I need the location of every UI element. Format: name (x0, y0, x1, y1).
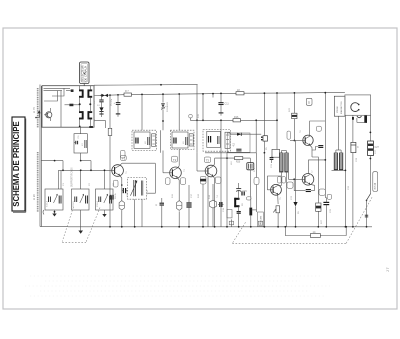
svg-text:C11: C11 (225, 103, 230, 106)
emitter network T1 (121, 178, 123, 201)
bus label box 5 (258, 221, 262, 225)
resistor on x110 (108, 128, 112, 135)
emitter resistor T4 (316, 203, 321, 211)
wire verticals to tuned row (60, 170, 62, 189)
IF transformer dashed (128, 178, 147, 200)
diode to ground (295, 141, 297, 203)
second rail y120 (190, 119, 277, 121)
svg-text:R16: R16 (234, 116, 239, 119)
node dots (79, 103, 81, 105)
component value labels (63, 98, 377, 224)
DIN pin dark (352, 115, 354, 117)
DIN socket box (345, 95, 371, 115)
transistor T2 (170, 166, 182, 180)
label box C (317, 126, 322, 131)
frame bottom (40, 226, 68, 228)
show-through ghost texture (25, 276, 330, 296)
long wires down from socket (344, 115, 346, 227)
svg-text:T3: T3 (206, 158, 210, 162)
wire connector down (263, 153, 265, 227)
left frame tick text column (37, 88, 39, 128)
wire nest top-left of tuner (44, 87, 71, 89)
svg-text:SUPPORT RCA 90: SUPPORT RCA 90 (71, 167, 74, 187)
dark bar (364, 116, 367, 123)
wire y152.8 (205, 152, 256, 154)
emitter resistor T2 euro (177, 201, 182, 211)
box corner right of tuner (94, 121, 106, 128)
svg-text:C3 L6: C3 L6 (97, 200, 99, 207)
IF filter F3 dashed (203, 129, 230, 151)
svg-text:PU: PU (266, 147, 268, 150)
varicap (162, 94, 164, 102)
transformer secondary down (134, 199, 136, 227)
svg-text:C27: C27 (375, 146, 380, 149)
coil L1b bracket (88, 90, 93, 98)
label CV box (306, 98, 312, 105)
svg-text:MAGNETOS.: MAGNETOS. (340, 101, 343, 114)
coil L3 (85, 140, 86, 148)
label boxes left of T2 coil (113, 180, 118, 187)
connector plug (261, 136, 268, 141)
left frame vertical rule (39, 85, 41, 227)
svg-text:T2 FI: T2 FI (147, 190, 149, 195)
video diode (230, 133, 237, 135)
ground under B1 (54, 210, 56, 214)
coil L2a bracket (79, 111, 84, 119)
svg-text:SCHEMA DE PRINCIPE: SCHEMA DE PRINCIPE (12, 121, 21, 207)
svg-text:FD: FD (242, 203, 244, 206)
resistor R22 (292, 113, 297, 118)
antenna input arrow (35, 110, 41, 118)
HAUT PARLEUR label (373, 172, 378, 192)
resistor R2 dark (71, 89, 74, 92)
coil top stubs (79, 86, 81, 90)
cap C24 (323, 202, 329, 204)
svg-text:D3 BB105: D3 BB105 (167, 101, 169, 112)
T4 collector up (309, 160, 326, 174)
ceramic discriminator thick bracket (234, 198, 239, 207)
resistors beside T3 (200, 176, 206, 184)
IF filter F2 dashed (170, 130, 194, 149)
node (109, 94, 111, 96)
PRISE MAGNETOSCOPE box (334, 96, 345, 116)
resistor R7 (124, 93, 132, 96)
IF transformer hatched A (280, 153, 289, 172)
capacitor C15 (236, 189, 241, 192)
label box small (247, 197, 252, 200)
resistor R4 dark (69, 104, 73, 107)
speaker switch (366, 200, 368, 202)
svg-text:T2: T2 (173, 158, 177, 162)
label box mid (254, 178, 259, 185)
svg-text:T1: T1 (122, 156, 126, 160)
collector wire T6 (310, 121, 326, 136)
sound rail (215, 157, 251, 159)
svg-text:R 7: R 7 (125, 90, 129, 93)
AGC wire top (94, 84, 198, 87)
emitter cap T6 (310, 145, 312, 157)
label box volume (258, 212, 264, 227)
inter-filter wires (159, 130, 161, 153)
tuner box (42, 86, 94, 128)
cap C14 (160, 203, 165, 205)
dashed pointer left (62, 207, 100, 242)
resistor euro style (210, 200, 217, 208)
electrolytic cap large striped (368, 141, 380, 156)
svg-text:R20: R20 (236, 162, 241, 164)
ceramic filter FI son (249, 158, 251, 163)
thick bar (249, 208, 252, 216)
label box F1 (120, 150, 125, 158)
ground under B3 (104, 210, 106, 214)
svg-text:PRISE: PRISE (337, 106, 339, 113)
ground below bus at B2 (80, 210, 82, 231)
audio driver T6 (302, 135, 313, 145)
label box reglage (227, 210, 232, 218)
svg-text:HP 25: HP 25 (374, 182, 377, 189)
svg-text:J 7: J 7 (386, 267, 390, 272)
resistor R9 euro (119, 201, 124, 210)
bus label box 18 (229, 221, 233, 225)
label box right of T4 (319, 189, 325, 195)
svg-text:CV: CV (94, 100, 96, 104)
coil L1a bracket (79, 90, 84, 98)
title block SCHEMA DE PRINCIPE (12, 117, 26, 212)
feedback loop lower right (285, 227, 310, 236)
svg-text:CV: CV (94, 118, 96, 122)
wire tuner out (41, 160, 63, 162)
diode pair on bus (102, 94, 109, 97)
stub node 213 (212, 94, 214, 98)
volume potentiometer under T5 (276, 206, 280, 213)
label T1 (121, 155, 127, 160)
svg-text:FI S: FI S (254, 167, 256, 172)
dashed pointer right (232, 196, 372, 243)
tuner right wire (109, 95, 111, 170)
resistor R20 (235, 157, 243, 160)
capacitor C7 (76, 141, 78, 145)
IF filter F1 dashed (132, 130, 156, 150)
vertical to IF box2 (178, 94, 180, 130)
svg-text:C5 10u: C5 10u (111, 98, 113, 106)
ground bus (68, 226, 372, 228)
tuned circuit box B1 (45, 189, 63, 210)
cap C17 dark (186, 203, 191, 207)
detector transformer primary box (272, 149, 280, 157)
T4 emitter loop cap (306, 190, 311, 192)
svg-text:LI 20: LI 20 (32, 194, 36, 200)
IF transformer hatched B (334, 153, 343, 170)
T5 base wire (268, 176, 282, 190)
svg-text:R9 1k: R9 1k (115, 192, 117, 199)
supply bus wire (95, 92, 345, 95)
svg-text:C: C (156, 204, 158, 207)
svg-text:C: C (357, 146, 359, 149)
wire coil bottoms (79, 119, 81, 127)
tuned circuit box B3 (96, 189, 114, 210)
svg-text:C15: C15 (243, 191, 248, 193)
jack hook (357, 116, 362, 118)
vertical to IF box1 (141, 94, 143, 130)
bus node dots (109, 226, 367, 228)
wire box stem (80, 127, 82, 134)
selector box SELECTEUR DE CANAUX (80, 62, 90, 86)
label T3 (204, 157, 210, 162)
tuner transistor Q1 (46, 112, 52, 118)
DIN circle (351, 103, 358, 112)
tuned circuit box B2 (72, 189, 90, 210)
collector loop T1 (122, 162, 155, 164)
label T2 (172, 156, 178, 162)
coil L2b bracket (88, 111, 93, 119)
svg-text:LI 75: LI 75 (32, 107, 36, 113)
demod box (227, 133, 250, 152)
transistor T1 (112, 163, 124, 178)
resistor R18 (236, 92, 244, 95)
capacitor dark pair C16 (242, 192, 244, 196)
audio output transistor T4 (302, 174, 314, 186)
wire AGC (59, 169, 112, 171)
svg-text:4,5: 4,5 (232, 142, 236, 146)
supply verticals (276, 93, 278, 149)
AFC diode chain (97, 95, 104, 118)
electrolytic cap small (351, 142, 356, 152)
resistor R16 on rail (233, 119, 241, 122)
transistor T3 (205, 164, 217, 178)
cap C11 + ground (218, 93, 229, 116)
wire between coil rows (79, 98, 81, 112)
label boxes beside T2 (166, 178, 171, 185)
capacitor dark pair (220, 202, 222, 207)
link wire y170 (332, 169, 346, 171)
capacitor C5 + ground (114, 95, 121, 117)
audio det transistor T5 (270, 184, 281, 195)
label boxes near T5 (278, 177, 282, 183)
mixer LC box (74, 134, 87, 153)
svg-text:C2 L5: C2 L5 (73, 200, 75, 207)
